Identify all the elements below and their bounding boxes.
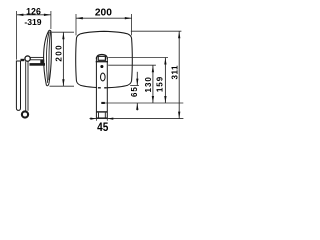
- dimension 159 bottom arrow: [164, 96, 166, 103]
- dimension 45 left arrow: [90, 117, 96, 119]
- extension line mirror left edge top: [75, 14, 77, 35]
- lens curve B: [46, 31, 49, 82]
- post base inner left: [98, 113, 100, 119]
- reference line dot: [108, 64, 156, 66]
- rod side view: [25, 61, 27, 111]
- post dot: [100, 65, 103, 68]
- dimension 200 left vertical line: [62, 32, 64, 86]
- post front view left edge: [95, 57, 97, 119]
- extension line mirror bottom right: [130, 85, 139, 87]
- dimension 200 left top arrow: [62, 33, 64, 40]
- knob circle bottom: [22, 111, 28, 117]
- post cap dome: [96, 54, 107, 59]
- mirror lens side view curve A: [44, 32, 49, 86]
- dimension 311 line: [178, 31, 180, 118]
- post body mask: [97, 58, 107, 119]
- svg-text:200: 200: [54, 44, 63, 62]
- dimension 311 bottom arrow: [178, 112, 180, 119]
- dimension 200 left bottom arrow: [62, 79, 64, 86]
- mirror squircle front view: [76, 31, 133, 88]
- post base inner right: [104, 113, 106, 119]
- reference line post top: [108, 57, 168, 59]
- post dash left: [98, 87, 101, 89]
- lens curve C: [49, 31, 51, 80]
- lens curve D back: [49, 31, 51, 83]
- dimension 200 top line: [76, 17, 132, 19]
- extension stub base left: [95, 119, 97, 121]
- reference line leader: [105, 102, 183, 104]
- post oval slot: [101, 73, 106, 81]
- extension line mirror front face: [50, 11, 52, 29]
- svg-text:130: 130: [144, 76, 153, 92]
- svg-text:159: 159: [155, 76, 164, 92]
- dimension 45 right arrow: [108, 117, 114, 119]
- dimension 65 line upper overrun: [136, 72, 138, 86]
- post front view right edge: [106, 57, 108, 119]
- dimension 159 top arrow: [164, 58, 166, 65]
- arm side view: [30, 56, 44, 58]
- bracket connector: [21, 59, 25, 61]
- pivot circle top: [25, 56, 30, 61]
- dimension 130 bottom arrow: [152, 96, 154, 103]
- dimension 65 lower outside arrow: [136, 103, 138, 110]
- post cap base line: [96, 61, 108, 63]
- baseline bottom: [90, 118, 184, 120]
- dimension 311 top arrow: [178, 31, 180, 38]
- extension stub base right: [106, 119, 108, 121]
- svg-text:-319: -319: [24, 17, 41, 27]
- dimension 200 top left arrow: [76, 17, 83, 19]
- post dash right: [104, 87, 107, 89]
- post base top line: [96, 111, 107, 113]
- extension line mirror right edge top: [131, 14, 133, 35]
- svg-text:311: 311: [171, 65, 180, 79]
- dimension 126 line: [17, 14, 51, 16]
- dimension 126 right arrow: [44, 14, 51, 16]
- svg-text:65: 65: [130, 86, 139, 97]
- lens top tip: [48, 30, 51, 31]
- svg-text:126: 126: [26, 6, 41, 16]
- dimension 65 upper outside arrow: [136, 79, 138, 86]
- post base bottom bar: [96, 117, 107, 119]
- svg-text:45: 45: [97, 120, 108, 134]
- hinge boss: [40, 60, 44, 64]
- lens bottom tip: [46, 84, 49, 86]
- wall plate side view: [16, 61, 20, 110]
- dimension 200 top right arrow: [125, 17, 132, 19]
- dimension 130 top arrow: [152, 65, 154, 72]
- reference line mirror top right: [131, 30, 182, 32]
- dimension 159 line: [164, 58, 166, 104]
- dimension 130 line: [152, 65, 154, 103]
- extension line lens top: [52, 31, 74, 33]
- dimension 65 line lower overrun: [136, 103, 138, 110]
- extension line lens bottom: [50, 85, 75, 87]
- dimension 126 left arrow: [17, 14, 24, 16]
- leader blob: [101, 102, 105, 104]
- post cap band: [98, 56, 105, 60]
- svg-text:200: 200: [95, 8, 112, 19]
- arm hinge block: [30, 63, 46, 66]
- extension line wall face: [16, 11, 18, 60]
